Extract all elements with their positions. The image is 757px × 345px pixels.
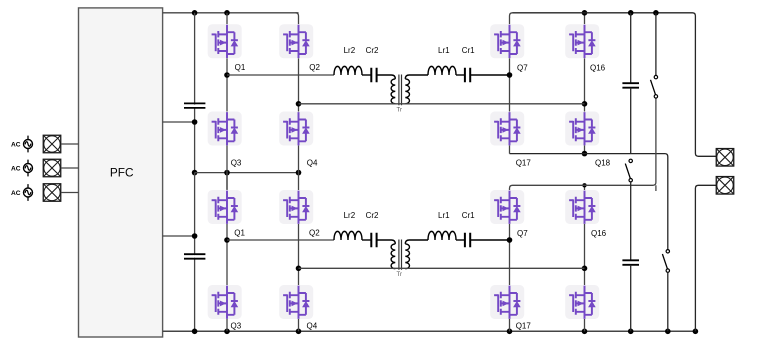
wire Cr1 to right bridge lower xyxy=(470,239,509,241)
svg-text:Q18: Q18 xyxy=(595,158,611,167)
wire Q17 source to output rail xyxy=(509,146,511,154)
wire lower out cap to bottom rail xyxy=(630,265,632,332)
transistor MOSFET Q3 lower xyxy=(208,285,242,319)
output X-box load 2 xyxy=(716,177,734,195)
wire transformer to Lr1 lower xyxy=(405,240,428,244)
junction bottom rail at bus cap xyxy=(192,329,198,335)
wire transformer to Lr1 upper xyxy=(405,75,428,79)
junction bus at PFC stub upper xyxy=(192,119,198,125)
wire Lr2 to Cr2 lower xyxy=(362,239,371,241)
wire transformer return rail lower (RX2) xyxy=(299,267,585,269)
wire bus cap column lower xyxy=(194,173,196,332)
transistor MOSFET Q3 xyxy=(208,112,242,146)
junction bottom rail at Q3b xyxy=(224,329,230,335)
junction midpoint at Q3 column xyxy=(224,170,230,176)
input X-box F3 xyxy=(43,184,61,202)
svg-text:Tr: Tr xyxy=(397,107,402,113)
svg-text:Q1: Q1 xyxy=(235,63,246,72)
transistor MOSFET Q17 xyxy=(490,112,524,146)
AC source V1 xyxy=(24,136,33,153)
svg-text:Q3: Q3 xyxy=(231,322,242,331)
transformer Tr primary winding upper xyxy=(391,79,395,104)
wire Q16-Q18 column xyxy=(584,58,586,111)
wire lower Q7 drain corner xyxy=(510,185,513,190)
junction lower output rail at Q16 xyxy=(582,183,586,187)
wire bridge midpoint to Lr2 upper xyxy=(227,74,334,76)
junction top rail at Q1 xyxy=(224,10,230,16)
junction top rail at out cap xyxy=(628,10,634,16)
wire Q7-Q17 column xyxy=(509,58,511,111)
wire Lr1 to Cr1 upper xyxy=(456,74,465,76)
input X-box F2 xyxy=(43,159,61,177)
junction lower Q7-Q17 midpoint xyxy=(507,237,513,243)
svg-text:PFC: PFC xyxy=(110,166,134,180)
junction bottom rail at right riser xyxy=(693,329,699,335)
wire transformer return rail upper (RX1) xyxy=(299,103,585,105)
svg-text:Q7: Q7 xyxy=(517,63,528,72)
wire out cap to output rail xyxy=(630,88,632,154)
wire lower Q7-Q17 column xyxy=(509,224,511,285)
wire bridge midpoint to Lr2 lower xyxy=(227,239,334,241)
input X-box F1 xyxy=(43,135,61,153)
wire switch S1 overhang stub xyxy=(655,185,657,191)
junction lower Q2-Q4 at transformer return xyxy=(296,266,302,272)
svg-text:Q17: Q17 xyxy=(516,322,532,331)
wire Cr2 to transformer upper xyxy=(377,75,396,79)
junction bottom rail at out cap xyxy=(628,329,634,335)
capacitor Cr1 upper xyxy=(465,68,470,83)
wire AC2 to PFC xyxy=(61,167,79,169)
wire out cap column upper xyxy=(630,13,632,83)
wire PFC mid stub lower xyxy=(163,235,195,237)
AC source V3 xyxy=(24,184,33,201)
wire AC1 to PFC xyxy=(61,143,79,145)
svg-text:Q2: Q2 xyxy=(309,229,320,238)
switch S3 xyxy=(662,250,669,273)
wire lower Q16 drain xyxy=(584,185,586,190)
wire Q1-Q3 column xyxy=(226,58,228,111)
transformer Tr core lower xyxy=(399,240,402,270)
transformer Tr secondary winding lower xyxy=(405,244,409,269)
transistor MOSFET Q17 lower xyxy=(490,285,524,319)
junction top rail at bus cap xyxy=(192,10,198,16)
junction Q1-Q3 midpoint xyxy=(224,72,230,78)
svg-text:Q16: Q16 xyxy=(590,63,606,72)
wire lower Q16-Q18 column xyxy=(584,224,586,285)
wire Q2-Q4 column xyxy=(298,58,300,111)
svg-text:Q3: Q3 xyxy=(231,158,242,167)
svg-text:Q4: Q4 xyxy=(307,322,318,331)
PFC converter block U1 xyxy=(79,8,163,337)
junction top rail at switch S1 xyxy=(653,10,659,16)
transistor MOSFET Q7 xyxy=(490,24,524,58)
wire lower Q18 source xyxy=(584,319,586,331)
svg-text:Q17: Q17 xyxy=(516,158,532,167)
output X-box load 1 xyxy=(716,149,734,167)
transistor MOSFET Q18 xyxy=(565,112,599,146)
inductor Lr1 lower xyxy=(428,231,456,240)
wire lower output top rail xyxy=(513,98,656,185)
transistor MOSFET Q16 lower xyxy=(565,190,599,224)
svg-text:Q2: Q2 xyxy=(309,63,320,72)
wire Lr2 to Cr2 upper xyxy=(362,74,371,76)
svg-text:Lr1: Lr1 xyxy=(438,211,450,220)
svg-text:AC: AC xyxy=(11,190,21,197)
transistor MOSFET Q4 xyxy=(279,112,313,146)
wire Q1 drain xyxy=(226,13,228,24)
wire Q7 drain corner xyxy=(510,13,513,24)
wire Q2 drain corner xyxy=(296,13,299,24)
svg-text:Q16: Q16 xyxy=(591,229,607,238)
wire lower Q1 column xyxy=(226,173,228,190)
wire top rail left segment xyxy=(163,12,299,14)
junction bus at midpoint rail xyxy=(192,170,198,176)
capacitor Cout1 xyxy=(622,83,639,88)
capacitor Cr2 lower xyxy=(371,233,376,248)
switch S2 xyxy=(625,159,632,182)
switch S1 xyxy=(651,75,658,98)
wire lower load riser xyxy=(695,185,716,331)
wire Cr2 to transformer lower xyxy=(377,240,396,244)
wire Cr1 to right bridge upper xyxy=(470,74,509,76)
svg-text:Lr2: Lr2 xyxy=(344,46,356,55)
svg-text:Cr2: Cr2 xyxy=(366,211,379,220)
svg-text:AC: AC xyxy=(11,142,21,149)
capacitor Cbus2 xyxy=(184,254,205,259)
wire Q3 source xyxy=(226,146,228,190)
wire lower Q2-Q4 column xyxy=(298,224,300,285)
wire S3 to bottom rail xyxy=(667,272,669,331)
wire AC3 to PFC xyxy=(61,192,79,194)
svg-text:Cr1: Cr1 xyxy=(462,211,475,220)
transistor MOSFET Q18 lower xyxy=(565,285,599,319)
svg-text:Q1: Q1 xyxy=(234,229,245,238)
wire S2 to lower out cap xyxy=(630,182,632,260)
wire lower Q1-Q3 column xyxy=(226,224,228,285)
svg-text:AC: AC xyxy=(11,166,21,173)
transistor MOSFET Q1 lower xyxy=(208,190,242,224)
wire Lr1 to Cr1 lower xyxy=(456,239,465,241)
wire Q16 drain xyxy=(584,13,586,24)
wire lower Q4 source xyxy=(298,319,300,331)
svg-text:Tr: Tr xyxy=(397,272,402,278)
wire Q18 source to output rail xyxy=(584,146,586,154)
wire top rail right segment xyxy=(513,13,717,157)
AC source V2 xyxy=(24,160,33,177)
svg-text:Q4: Q4 xyxy=(307,158,318,167)
svg-text:Cr1: Cr1 xyxy=(462,46,475,55)
inductor Lr2 upper xyxy=(334,66,362,75)
transformer Tr primary winding lower xyxy=(391,244,395,269)
junction lower Q1-Q3 midpoint xyxy=(224,237,230,243)
wire PFC mid stub upper xyxy=(163,121,195,123)
junction bus at PFC stub lower xyxy=(192,233,198,239)
transistor MOSFET Q1 xyxy=(208,24,242,58)
transistor MOSFET Q2 lower xyxy=(279,190,313,224)
wire Q4 source xyxy=(298,146,300,191)
junction Q16-Q18 at transformer return xyxy=(582,101,588,107)
wire top rail to switch S1 xyxy=(655,13,657,76)
svg-text:Lr2: Lr2 xyxy=(344,211,356,220)
junction lower Q16-Q18 at transformer return xyxy=(582,266,588,272)
capacitor Cr2 upper xyxy=(371,68,376,83)
svg-text:Cr2: Cr2 xyxy=(366,46,379,55)
junction Q2-Q4 at transformer return xyxy=(296,101,302,107)
junction bottom rail at Q17b xyxy=(507,329,513,335)
junction output rail at Q18 xyxy=(582,151,588,157)
inductor Lr1 upper xyxy=(428,66,456,75)
transistor MOSFET Q7 lower xyxy=(490,190,524,224)
wire upper output bottom rail xyxy=(510,154,668,250)
capacitor Cout2 xyxy=(622,260,639,265)
wire bottom rail xyxy=(163,330,696,332)
svg-text:Lr1: Lr1 xyxy=(438,46,450,55)
wire lower Q3 source xyxy=(226,319,228,331)
wire lower Q17 source xyxy=(509,319,511,331)
transformer Tr core upper xyxy=(399,75,402,106)
transistor MOSFET Q16 xyxy=(565,24,599,58)
capacitor Cbus1 xyxy=(184,103,205,108)
junction midpoint at Q4 column xyxy=(296,170,302,176)
transistor MOSFET Q2 xyxy=(279,24,313,58)
svg-text:Q7: Q7 xyxy=(517,229,528,238)
transistor MOSFET Q4 lower xyxy=(279,285,313,319)
junction bottom rail at switch S3 xyxy=(665,329,671,335)
junction Q7-Q17 midpoint xyxy=(507,72,513,78)
inductor Lr2 lower xyxy=(334,231,362,240)
transformer Tr secondary winding upper xyxy=(405,79,409,104)
wire midpoint rail xyxy=(195,172,299,174)
junction bottom rail at Q18b xyxy=(582,329,588,335)
capacitor Cr1 lower xyxy=(465,233,470,248)
wire bus cap column upper xyxy=(194,13,196,173)
junction bottom rail at Q4b xyxy=(296,329,302,335)
junction top rail at Q16 xyxy=(582,10,588,16)
